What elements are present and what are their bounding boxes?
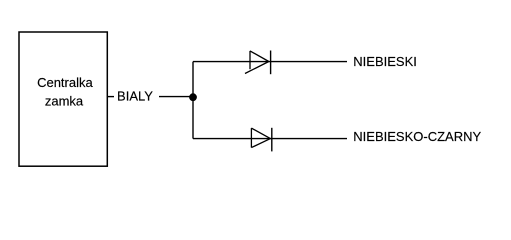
svg-text:NIEBIESKI: NIEBIESKI bbox=[353, 54, 417, 69]
svg-text:NIEBIESKO-CZARNY: NIEBIESKO-CZARNY bbox=[353, 129, 481, 144]
svg-text:BIALY: BIALY bbox=[117, 88, 153, 103]
svg-text:zamka: zamka bbox=[45, 93, 84, 108]
svg-text:Centralka: Centralka bbox=[37, 75, 93, 90]
